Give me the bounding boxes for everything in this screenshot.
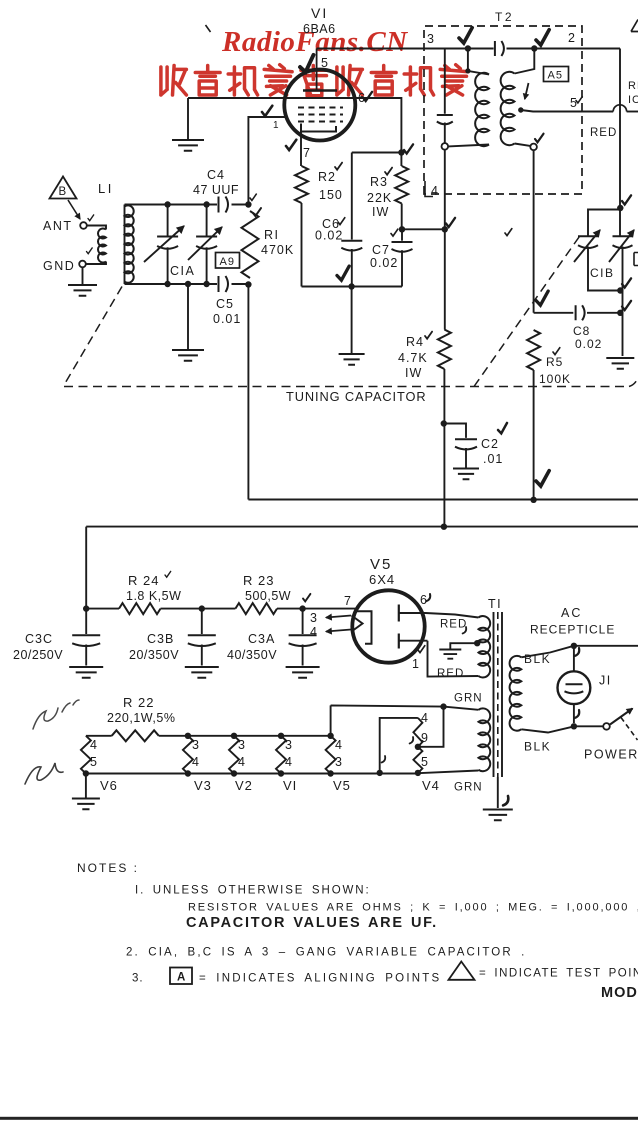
node 444/229 bbox=[442, 226, 448, 232]
svg-text:C3A: C3A bbox=[248, 632, 275, 646]
node CIA2 bottom bbox=[203, 281, 209, 287]
label RED IF lead bbox=[590, 127, 617, 139]
svg-text:C3B: C3B bbox=[147, 632, 174, 646]
wire R3 bottom bbox=[401, 204, 403, 230]
label R23 bbox=[243, 573, 274, 588]
variable capacitor CIA section 2 bbox=[196, 205, 217, 285]
wire screen feed down bbox=[444, 229, 446, 329]
svg-text:4: 4 bbox=[192, 755, 200, 769]
label T2 pin 2 bbox=[568, 31, 576, 45]
svg-text:B: B bbox=[59, 186, 68, 198]
label J1 bbox=[599, 674, 612, 688]
label 6BA6 bbox=[303, 22, 336, 36]
label R1 value bbox=[261, 243, 294, 257]
svg-text:RESISTOR VALUES ARE OHMS ;: RESISTOR VALUES ARE OHMS ; K = I,000 ; M… bbox=[188, 902, 638, 914]
T1 primary winding bbox=[510, 656, 522, 731]
partial aligning box (cut) bbox=[634, 253, 638, 266]
B+ bus bbox=[86, 527, 638, 609]
wire R3 to B+ line bbox=[402, 228, 445, 230]
coil L1 bbox=[125, 205, 134, 285]
label AC bbox=[561, 606, 582, 620]
svg-text:RECEPTICLE: RECEPTICLE bbox=[530, 623, 615, 637]
capacitor C5 bbox=[219, 276, 229, 292]
node B+/screen bbox=[441, 524, 447, 530]
node L1 bottom 1 bbox=[164, 281, 170, 287]
label V4 pin 5 bbox=[421, 755, 429, 769]
ground heater string bbox=[72, 774, 100, 810]
svg-text:IC: IC bbox=[628, 94, 638, 106]
label pin 6 bbox=[358, 91, 366, 105]
label V1 bbox=[311, 5, 328, 21]
V5 pin 4 arrow bbox=[326, 628, 351, 633]
wire V5 lower plate to T1 bbox=[428, 641, 479, 677]
T2 secondary coil bbox=[501, 72, 515, 145]
label R5 value bbox=[539, 372, 571, 386]
svg-text:470K: 470K bbox=[261, 243, 294, 257]
T1 HV center tap bbox=[439, 640, 480, 659]
svg-text:5: 5 bbox=[321, 56, 329, 70]
AVC bus bbox=[248, 285, 638, 500]
variable capacitor CIA section 1 bbox=[157, 205, 178, 285]
svg-text:GRN: GRN bbox=[454, 782, 483, 794]
label C3A bbox=[248, 632, 275, 646]
test point triangle (cut at edge) bbox=[631, 20, 638, 32]
label C6 value bbox=[315, 229, 343, 243]
label pin 5 bbox=[321, 56, 329, 70]
label CIA bbox=[170, 264, 195, 278]
label V3 pin 3 bbox=[192, 738, 200, 752]
svg-text:150: 150 bbox=[319, 188, 343, 202]
capacitor C7 bbox=[392, 229, 413, 286]
svg-text:R5: R5 bbox=[546, 355, 563, 369]
label V1h bbox=[283, 778, 297, 793]
heater V2 bbox=[229, 733, 239, 777]
note 3 aligning box bbox=[170, 968, 192, 985]
svg-text:A5: A5 bbox=[548, 70, 563, 82]
label T1 bbox=[488, 597, 502, 611]
label V2 pin 3 bbox=[238, 738, 246, 752]
svg-text:4: 4 bbox=[238, 755, 246, 769]
watermark RadioFans.CN bbox=[221, 26, 408, 58]
label C3B value bbox=[129, 648, 179, 662]
label R2 bbox=[318, 170, 336, 184]
T2 secondary tap bbox=[518, 107, 613, 112]
BLK bottom wire bbox=[574, 725, 603, 727]
label R3 bbox=[370, 175, 388, 189]
node CIA2 top bbox=[203, 201, 209, 207]
note 1 capacitors bbox=[186, 915, 438, 931]
T2 pin 5' terminal bbox=[530, 144, 537, 151]
svg-text:GRN: GRN bbox=[454, 693, 483, 705]
label C8 bbox=[573, 324, 590, 338]
capacitor C2 bbox=[444, 424, 479, 480]
note 3 aligning text bbox=[199, 973, 441, 985]
svg-text:R4: R4 bbox=[406, 335, 424, 349]
svg-text:IW: IW bbox=[372, 205, 389, 219]
svg-text:V5: V5 bbox=[370, 556, 392, 573]
wire suppressor/ground to pin6 corner bbox=[188, 98, 401, 166]
wire L1 bottom bbox=[125, 283, 218, 285]
label BLK lower bbox=[524, 740, 551, 754]
aligning point A9 bbox=[216, 253, 240, 269]
svg-text:4: 4 bbox=[335, 738, 343, 752]
label V2 bbox=[235, 778, 253, 793]
wire V4 pin 9 feed bbox=[418, 707, 444, 747]
label R4 bbox=[406, 335, 424, 349]
label R22 value bbox=[107, 711, 175, 725]
svg-text:9: 9 bbox=[421, 731, 429, 745]
svg-text:C2: C2 bbox=[481, 437, 499, 451]
svg-text:POWER: POWER bbox=[584, 748, 638, 762]
label ANT bbox=[43, 219, 73, 233]
capacitor C6 bbox=[341, 153, 362, 287]
V1 cathode bbox=[301, 124, 336, 132]
svg-text:3.: 3. bbox=[132, 973, 144, 985]
label TUNING CAPACITOR bbox=[286, 389, 426, 404]
svg-text:5: 5 bbox=[421, 755, 429, 769]
label V4 pin 4 bbox=[421, 711, 429, 725]
wire V4 pin 4 loop bbox=[380, 718, 418, 773]
notes heading bbox=[77, 861, 139, 875]
wire V1 plate to T2 pin 3 bbox=[317, 48, 494, 50]
svg-text:GND: GND bbox=[43, 259, 75, 273]
cathode ground bus bbox=[302, 286, 403, 288]
label R5 bbox=[546, 355, 563, 369]
label C2 bbox=[481, 437, 499, 451]
svg-text:220,1W,5%: 220,1W,5% bbox=[107, 711, 175, 725]
bottom rule bbox=[0, 1117, 638, 1120]
svg-text:3: 3 bbox=[192, 738, 200, 752]
svg-text:I. UNLESS OTHERWISE SHOWN:: I. UNLESS OTHERWISE SHOWN: bbox=[135, 885, 371, 897]
svg-text:R 24: R 24 bbox=[128, 573, 159, 588]
terminal ANT bbox=[80, 222, 87, 229]
svg-text:7: 7 bbox=[344, 594, 352, 608]
T2 pin4 corner mark bbox=[425, 181, 433, 197]
wire R4 down bbox=[443, 369, 445, 527]
resistor R3 bbox=[395, 166, 408, 204]
heater V6 bbox=[81, 736, 91, 774]
osc section arrow bbox=[609, 230, 634, 262]
label V5h pin 4 bbox=[335, 738, 343, 752]
wire C3A node to V5 pin 7 bbox=[303, 608, 357, 610]
label pin 7 bbox=[303, 146, 311, 160]
resistor R24 bbox=[86, 603, 202, 614]
power switch link (dashed) bbox=[621, 718, 638, 741]
svg-text:40/350V: 40/350V bbox=[227, 648, 277, 662]
svg-text:= INDICATE TEST POIN: = INDICATE TEST POIN bbox=[479, 968, 638, 980]
capacitor J1 bbox=[558, 646, 591, 723]
label C6 bbox=[322, 217, 340, 231]
svg-text:3: 3 bbox=[335, 755, 343, 769]
label V5 pin 4 bbox=[310, 625, 318, 639]
label V5 pin 6 bbox=[420, 593, 428, 607]
power switch terminal bbox=[603, 723, 610, 730]
svg-text:TI: TI bbox=[488, 597, 502, 611]
svg-text:4: 4 bbox=[310, 625, 318, 639]
label R3 value bbox=[367, 191, 392, 205]
CIB branch lower bbox=[588, 247, 620, 291]
label RECEPTICLE bbox=[530, 623, 615, 637]
T1 heater winding bbox=[479, 708, 491, 771]
svg-text:3: 3 bbox=[238, 738, 246, 752]
ground at V1 grid return bbox=[172, 98, 204, 151]
label R23 value bbox=[245, 589, 291, 603]
svg-text:ANT: ANT bbox=[43, 219, 73, 233]
svg-text:7: 7 bbox=[303, 146, 311, 160]
svg-text:20/250V: 20/250V bbox=[13, 648, 63, 662]
svg-text:3: 3 bbox=[285, 738, 293, 752]
label pin 1 bbox=[273, 120, 280, 131]
handwritten scribble lower bbox=[25, 763, 63, 784]
svg-text:4.7K: 4.7K bbox=[398, 351, 428, 365]
svg-text:C5: C5 bbox=[216, 297, 234, 311]
label R1 bbox=[264, 228, 280, 242]
node CIB bottom bbox=[617, 287, 623, 293]
label V5h bbox=[333, 778, 351, 793]
svg-text:100K: 100K bbox=[539, 372, 571, 386]
label T2 pin 5 bbox=[570, 96, 578, 110]
node B+ / C3C bbox=[83, 605, 89, 611]
label C7 value bbox=[370, 256, 398, 270]
resistor R22 bbox=[112, 730, 159, 741]
heater V1 bbox=[276, 733, 286, 777]
label GRN upper bbox=[454, 693, 483, 705]
aligning point A5 bbox=[544, 67, 569, 82]
svg-text:3: 3 bbox=[427, 32, 435, 46]
svg-text:MOD: MOD bbox=[601, 985, 638, 1001]
CIA2 arrow bbox=[188, 227, 222, 260]
label RED lower bbox=[437, 668, 464, 680]
node ground tap bbox=[185, 281, 191, 287]
label R22 bbox=[123, 695, 154, 710]
svg-text:4: 4 bbox=[285, 755, 293, 769]
heater rail bottom bbox=[86, 771, 479, 774]
label V2 pin 4 bbox=[238, 755, 246, 769]
CIA1 arrow bbox=[144, 226, 184, 262]
svg-text:4: 4 bbox=[90, 738, 98, 752]
label R4 watts bbox=[405, 366, 422, 380]
svg-text:1: 1 bbox=[273, 120, 280, 131]
svg-text:0.02: 0.02 bbox=[575, 337, 602, 351]
resistor R2 bbox=[295, 166, 308, 203]
node T2 pin2 side bbox=[531, 45, 537, 51]
svg-text:VI: VI bbox=[311, 5, 328, 21]
svg-text:C3C: C3C bbox=[25, 632, 53, 646]
svg-text:6X4: 6X4 bbox=[369, 572, 395, 587]
wire R5 to AVC bus bbox=[533, 370, 535, 500]
svg-text:5: 5 bbox=[90, 755, 98, 769]
svg-text:BLK: BLK bbox=[524, 740, 551, 754]
capacitor C3B bbox=[185, 609, 219, 678]
ground osc line bbox=[606, 358, 634, 369]
capacitor C3C bbox=[69, 609, 103, 678]
V5 plate upper bbox=[399, 605, 426, 622]
svg-text:20/350V: 20/350V bbox=[129, 648, 179, 662]
label V4 bbox=[422, 778, 440, 793]
label C5 bbox=[216, 297, 234, 311]
transformer T2 shield box (dashed) bbox=[424, 26, 582, 194]
svg-text:R3: R3 bbox=[370, 175, 388, 189]
svg-text:1.8 K,5W: 1.8 K,5W bbox=[126, 589, 181, 603]
label R2 value bbox=[319, 188, 343, 202]
svg-text:A: A bbox=[177, 972, 185, 984]
R2 bottom lead bbox=[301, 203, 303, 287]
svg-text:RE: RE bbox=[628, 80, 638, 92]
node R23/C3A/V5 bbox=[299, 605, 305, 611]
inspection check marks bbox=[87, 28, 632, 806]
label C4 bbox=[207, 168, 225, 182]
label T2 bbox=[495, 10, 514, 24]
svg-text:AC: AC bbox=[561, 606, 582, 620]
svg-text:2. CIA, B,C IS A 3 – GANG: 2. CIA, B,C IS A 3 – GANG VARIABLE CAPAC… bbox=[126, 947, 527, 959]
wire C4 to grid node bbox=[232, 204, 249, 206]
svg-text:R 22: R 22 bbox=[123, 695, 154, 710]
node CIB top bbox=[617, 205, 623, 211]
label V1h pin 4 bbox=[285, 755, 293, 769]
label V1h pin 3 bbox=[285, 738, 293, 752]
stray mark bbox=[206, 25, 211, 32]
label R24 value bbox=[126, 589, 181, 603]
note 2 bbox=[126, 947, 527, 959]
label CIB bbox=[590, 266, 615, 280]
svg-text:2: 2 bbox=[568, 31, 576, 45]
label 6X4 bbox=[369, 572, 395, 587]
label RED upper bbox=[440, 619, 467, 631]
heater V4 lower bbox=[413, 747, 422, 776]
label BLK upper bbox=[524, 652, 551, 666]
node R24/R23/C3B bbox=[199, 605, 205, 611]
tube V1 envelope bbox=[284, 70, 355, 141]
label V4 pin 9 bbox=[421, 731, 429, 745]
node R1 bottom bbox=[245, 281, 251, 287]
svg-text:CAPACITOR VALUES ARE UF.: CAPACITOR VALUES ARE UF. bbox=[186, 915, 438, 931]
label V5h pin 3 bbox=[335, 755, 343, 769]
ground cathode bus bbox=[339, 287, 365, 365]
node J1 top bbox=[571, 643, 577, 649]
label V6 pin 5 bbox=[90, 755, 98, 769]
label C5 value bbox=[213, 312, 241, 326]
svg-text:= INDICATES ALIGNING POINTS: = INDICATES ALIGNING POINTS bbox=[199, 973, 441, 985]
heater V5 bbox=[326, 733, 336, 777]
svg-text:6BA6: 6BA6 bbox=[303, 22, 336, 36]
heater V3 bbox=[183, 733, 193, 777]
svg-text:A9: A9 bbox=[220, 256, 235, 268]
label R3 watts bbox=[372, 205, 389, 219]
node V6 bottom bbox=[83, 770, 89, 776]
capacitor C4 bbox=[219, 197, 229, 213]
V1 plate bbox=[303, 49, 337, 91]
V5 pin 3 arrow bbox=[326, 614, 351, 619]
svg-text:JI: JI bbox=[599, 674, 612, 688]
ground GND terminal bbox=[68, 267, 97, 296]
heater rail top bbox=[86, 735, 331, 737]
node GRN tap bbox=[440, 703, 446, 709]
T2 primary top link bbox=[465, 49, 489, 75]
svg-text:IW: IW bbox=[405, 366, 422, 380]
node ground bus bbox=[348, 283, 354, 289]
svg-text:5: 5 bbox=[570, 96, 578, 110]
label R4 value bbox=[398, 351, 428, 365]
svg-text:CIB: CIB bbox=[590, 266, 615, 280]
svg-text:R 23: R 23 bbox=[243, 573, 274, 588]
variable capacitor CIB bbox=[578, 236, 598, 248]
wire GRN to heater rail bbox=[331, 705, 479, 735]
note 3 test triangle bbox=[449, 962, 475, 980]
svg-text:C8: C8 bbox=[573, 324, 590, 338]
svg-text:V3: V3 bbox=[194, 778, 212, 793]
svg-text:NOTES :: NOTES : bbox=[77, 861, 139, 875]
antenna coupling coil bbox=[86, 226, 106, 265]
terminal GND bbox=[79, 261, 86, 268]
resistor R5 bbox=[527, 330, 540, 370]
V5 plate lower bbox=[399, 634, 428, 649]
note 1 bbox=[135, 885, 371, 897]
T2 primary coil bbox=[475, 73, 489, 146]
CIB branch bbox=[588, 210, 620, 236]
wire C3B to R23 bbox=[202, 608, 236, 610]
note 1 resistors bbox=[188, 902, 638, 914]
node C8 right bbox=[617, 310, 623, 316]
svg-text:V5: V5 bbox=[333, 778, 351, 793]
label V5 pin 1 bbox=[412, 657, 420, 671]
wire tap hop over RED line bbox=[613, 105, 638, 112]
watermark CJK text row bbox=[161, 65, 468, 96]
label C4 value bbox=[193, 183, 239, 197]
V1 pin 7 lead bbox=[300, 132, 302, 167]
variable capacitor osc section bbox=[613, 236, 633, 356]
wire V5 pin6 to T1 RED bbox=[426, 613, 479, 618]
svg-text:47 UUF: 47 UUF bbox=[193, 183, 239, 197]
node V4 pin 9 bbox=[415, 744, 421, 750]
node R3 bottom bbox=[399, 226, 405, 232]
V1 grids (dashed) bbox=[298, 108, 343, 122]
wire T2 secondary down bbox=[533, 150, 535, 313]
wire T2 cap to pin 2 corner bbox=[507, 48, 621, 50]
T2 slug arrow bbox=[524, 83, 529, 99]
label C8 value bbox=[575, 337, 602, 351]
node C2 tap bbox=[441, 420, 447, 426]
label C3B bbox=[147, 632, 174, 646]
partial label R (cut) bbox=[628, 80, 638, 92]
test point B triangle bbox=[50, 177, 77, 199]
svg-text:C4: C4 bbox=[207, 168, 225, 182]
svg-text:0.02: 0.02 bbox=[315, 229, 343, 243]
resistor R1 bbox=[242, 211, 259, 278]
label L1 bbox=[98, 181, 114, 196]
CIB arrow bbox=[574, 230, 600, 262]
svg-text:4: 4 bbox=[421, 711, 429, 725]
label V6 pin 4 bbox=[90, 738, 98, 752]
ground tuning section bbox=[172, 284, 204, 361]
svg-text:VI: VI bbox=[283, 778, 297, 793]
T2 primary bottom link bbox=[448, 145, 489, 147]
note 3 test text bbox=[479, 968, 638, 980]
svg-text:TUNING CAPACITOR: TUNING CAPACITOR bbox=[286, 389, 426, 404]
svg-text:0.02: 0.02 bbox=[370, 256, 398, 270]
handwritten scribble upper bbox=[33, 700, 79, 729]
wire RED vertical bbox=[619, 49, 621, 237]
T2 primary resonating capacitor bbox=[437, 49, 453, 144]
T1 primary bottom lead bbox=[521, 726, 574, 732]
heater V4 upper bbox=[413, 718, 422, 747]
svg-text:BLK: BLK bbox=[524, 652, 551, 666]
node T2 pin3 side bbox=[465, 45, 471, 51]
label POWER bbox=[584, 748, 638, 762]
BLK top wire bbox=[574, 645, 638, 647]
tube V5 envelope bbox=[352, 590, 424, 662]
wire L1 top bbox=[125, 204, 218, 206]
label V3 pin 4 bbox=[192, 755, 200, 769]
